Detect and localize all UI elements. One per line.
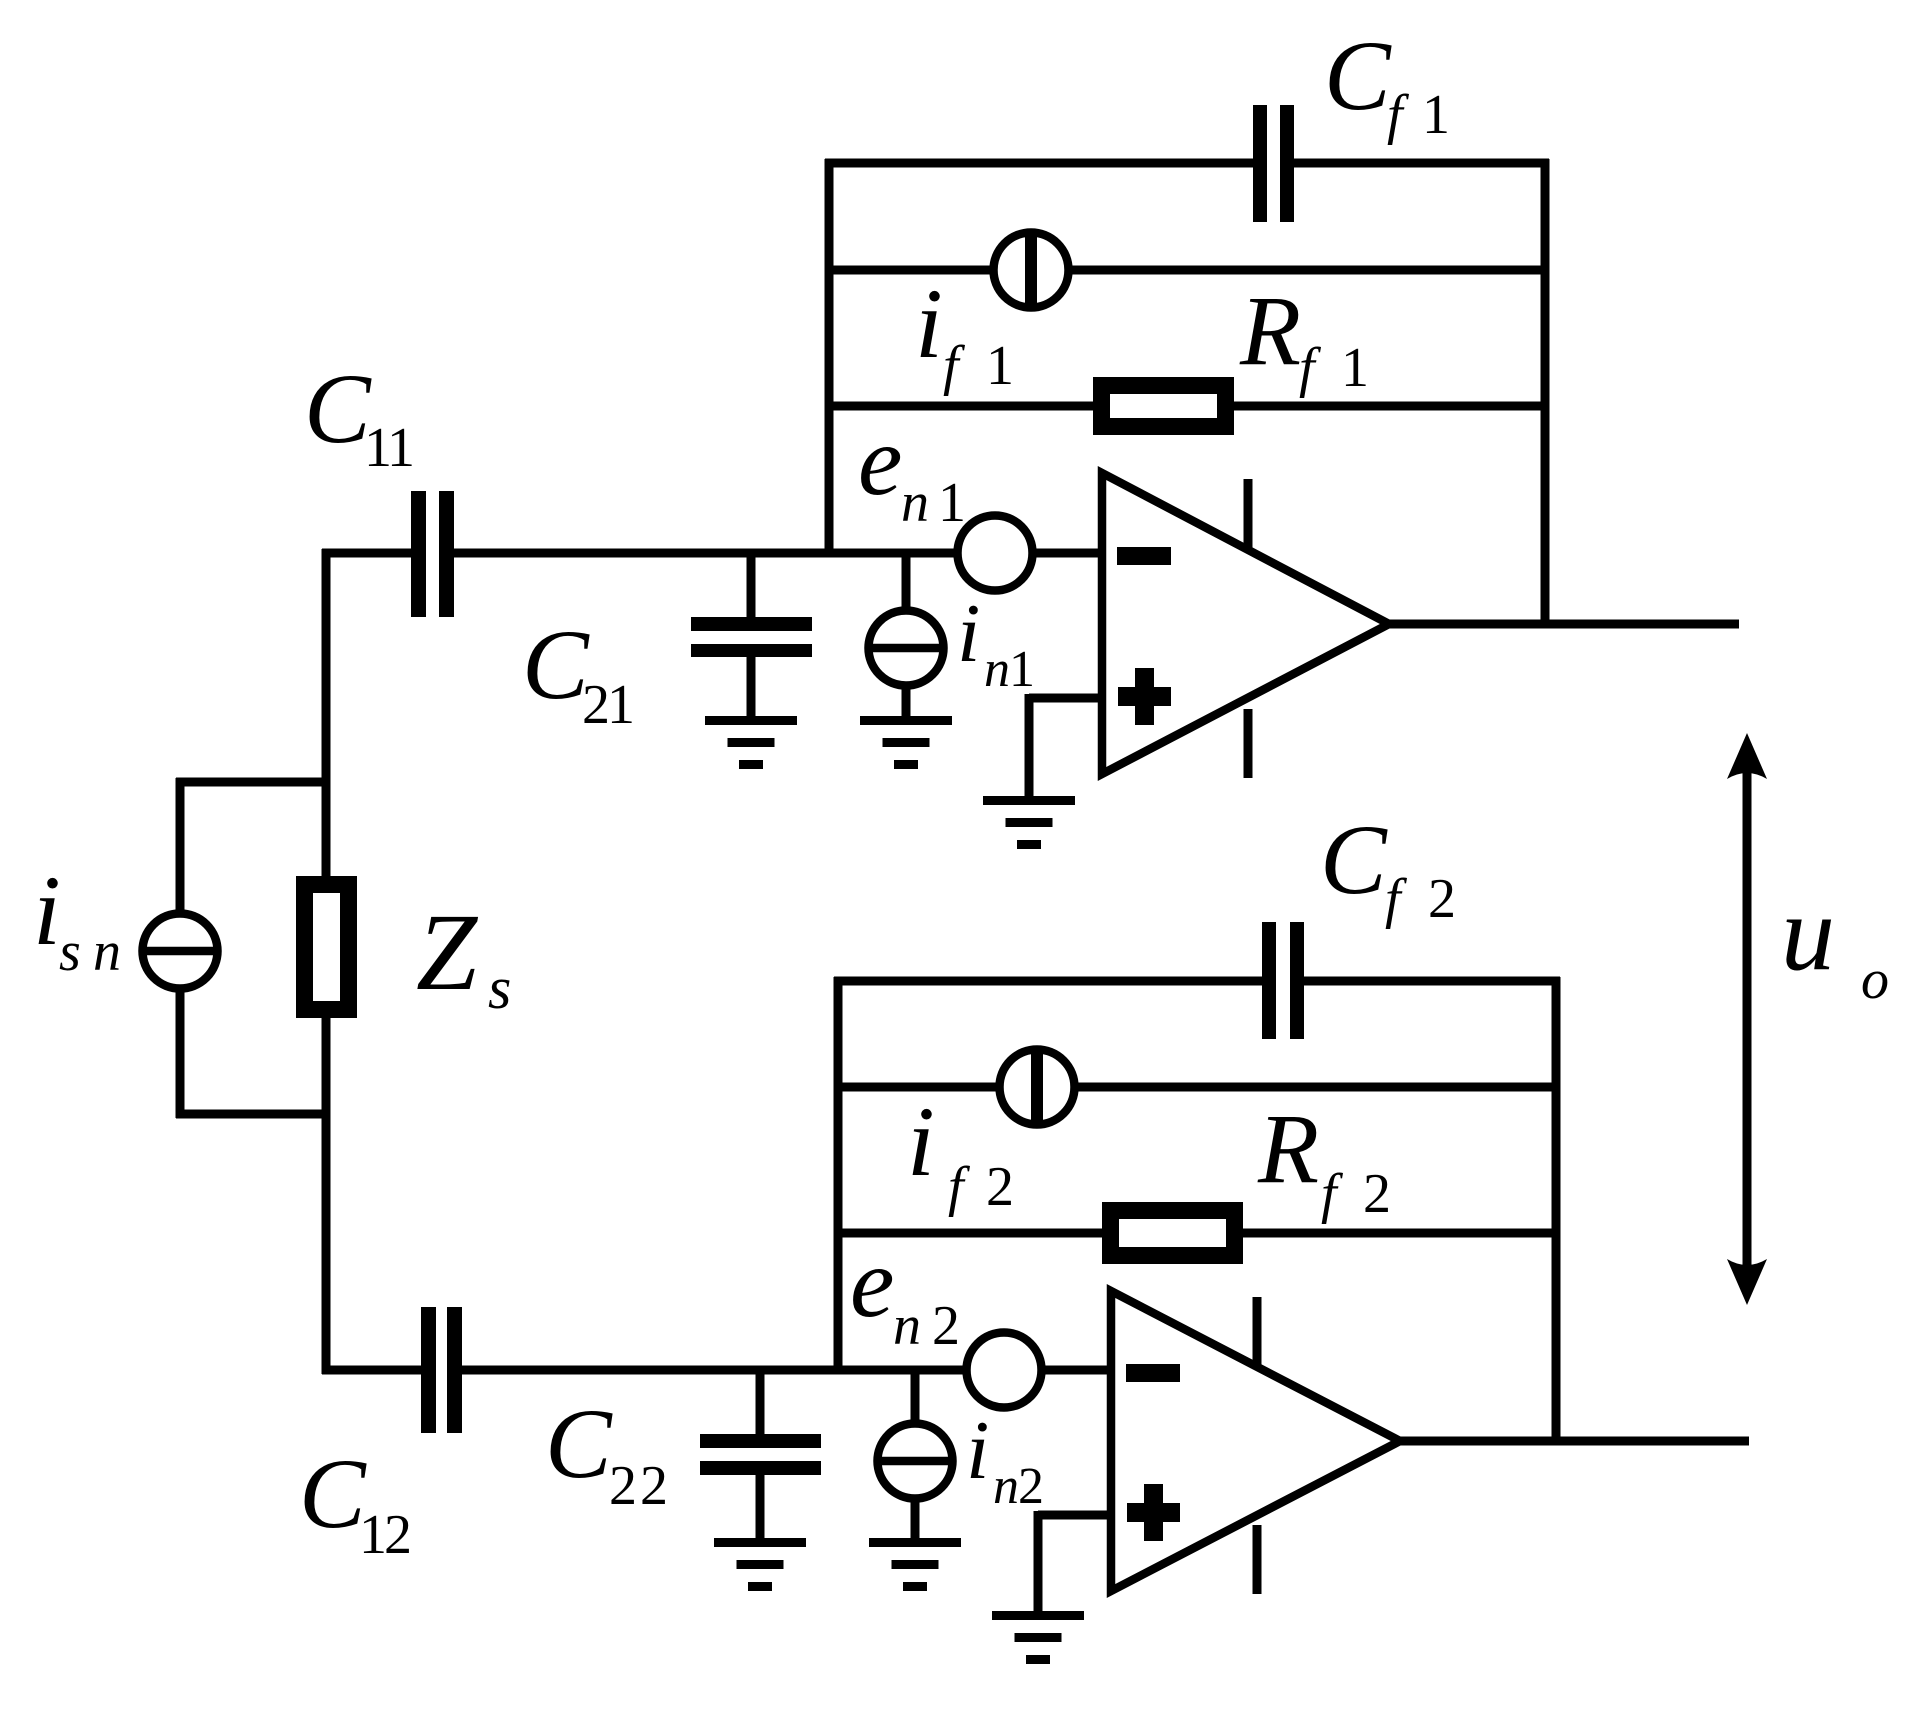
wire isn branch bottom xyxy=(176,1110,326,1119)
label C11 xyxy=(304,353,415,479)
svg-text:f: f xyxy=(1385,868,1408,930)
svg-text:C: C xyxy=(1320,804,1388,915)
wire output 1 xyxy=(1389,620,1739,629)
wire Rf1 row right xyxy=(1234,402,1549,411)
wire input line 1 (C11 to en1) xyxy=(454,549,955,558)
wire input line 2 (en2 to op-amp) xyxy=(1045,1366,1115,1375)
svg-text:i: i xyxy=(907,1086,935,1197)
svg-text:o: o xyxy=(1861,949,1889,1011)
svg-text:R: R xyxy=(1257,1093,1319,1204)
svg-text:1: 1 xyxy=(1009,641,1035,698)
current source if1 xyxy=(994,230,1069,310)
current source if2 xyxy=(1000,1047,1075,1127)
label in2 xyxy=(966,1404,1044,1515)
capacitor C11 xyxy=(411,491,454,617)
wire feedback box 1 top-right segment xyxy=(1294,159,1549,168)
ground (op-amp 1 + input) xyxy=(983,796,1075,849)
wire input line 2 (C12 to en2) xyxy=(462,1366,964,1375)
svg-text:2: 2 xyxy=(384,1504,412,1566)
svg-text:1: 1 xyxy=(387,417,415,479)
wire input line 1 (left of C11) xyxy=(322,549,411,558)
label Rf2 xyxy=(1257,1093,1391,1225)
wire feedback box 2 top-left segment xyxy=(834,977,1262,986)
wire non-inverting input 2 to ground xyxy=(1034,1511,1043,1615)
output voltage arrow uo xyxy=(1727,733,1767,1305)
label C12 xyxy=(299,1438,412,1566)
ground (C22) xyxy=(714,1538,806,1591)
svg-text:n: n xyxy=(993,1458,1019,1515)
current source isn xyxy=(142,914,218,989)
wire C22 to ground xyxy=(756,1475,765,1542)
wire isn branch left upper xyxy=(176,778,185,913)
wire feedback box 1 left edge xyxy=(825,159,834,557)
wire non-inverting input 1 xyxy=(1029,694,1106,703)
svg-text:2: 2 xyxy=(986,1156,1014,1218)
svg-text:i: i xyxy=(33,855,61,966)
ground (in2) xyxy=(869,1538,961,1591)
capacitor C12 xyxy=(421,1307,462,1433)
ground (C21) xyxy=(705,716,797,769)
label C21 xyxy=(522,609,635,736)
wire feedback box 2 right edge xyxy=(1552,977,1561,1445)
label isn xyxy=(33,855,121,983)
ground (in1) xyxy=(860,716,952,769)
svg-text:2: 2 xyxy=(640,1455,668,1517)
svg-text:f: f xyxy=(1299,337,1322,399)
svg-text:s: s xyxy=(59,921,81,983)
op-amp U2 xyxy=(1111,1291,1400,1594)
voltage noise source en2 xyxy=(967,1333,1042,1408)
capacitor Cf1 xyxy=(1253,105,1294,222)
svg-text:e: e xyxy=(858,405,902,516)
svg-text:R: R xyxy=(1239,275,1301,386)
label C22 xyxy=(545,1388,668,1517)
svg-text:n: n xyxy=(901,472,929,534)
svg-text:1: 1 xyxy=(359,1504,387,1566)
wire main input vertical (lower) xyxy=(322,1013,331,1374)
wire feedback box 1 right edge xyxy=(1541,159,1550,628)
wire output 2 xyxy=(1400,1437,1749,1446)
wire non-inverting input 1 to ground xyxy=(1025,694,1034,800)
impedance Zs xyxy=(305,885,349,1010)
svg-text:f: f xyxy=(948,1156,971,1218)
wire main input vertical (upper) xyxy=(322,549,331,881)
op-amp U1 xyxy=(1102,473,1389,778)
wire input line 2 (left of C12) xyxy=(322,1366,421,1375)
wire isn branch top xyxy=(176,778,326,787)
capacitor C22 xyxy=(700,1434,821,1475)
wire in2 to ground xyxy=(911,1498,920,1542)
wire Rf2 row right xyxy=(1243,1229,1560,1238)
wire Rf1 row left xyxy=(825,402,1093,411)
wire in1 stub xyxy=(902,553,911,611)
resistor Rf2 xyxy=(1111,1211,1235,1256)
svg-text:2: 2 xyxy=(1018,1458,1044,1515)
label en1 xyxy=(858,405,966,534)
svg-text:i: i xyxy=(957,587,980,680)
svg-text:1: 1 xyxy=(986,335,1014,397)
wire Rf2 row left xyxy=(834,1229,1102,1238)
wire non-inverting input 2 xyxy=(1038,1511,1115,1520)
voltage noise source en1 xyxy=(958,516,1033,591)
label in1 xyxy=(957,587,1035,698)
wire isn branch left lower xyxy=(176,989,185,1118)
svg-text:C: C xyxy=(299,1438,367,1549)
svg-text:1: 1 xyxy=(1341,337,1369,399)
svg-text:n: n xyxy=(984,641,1010,698)
label if1 xyxy=(915,268,1014,397)
svg-text:u: u xyxy=(1781,874,1835,993)
svg-text:e: e xyxy=(850,1227,894,1338)
svg-text:1: 1 xyxy=(938,472,966,534)
svg-text:C: C xyxy=(522,609,590,720)
label uo xyxy=(1781,874,1889,1011)
wire in2 stub xyxy=(911,1370,920,1424)
svg-text:1: 1 xyxy=(1422,84,1450,146)
capacitor C21 xyxy=(691,617,812,657)
wire C21 to ground xyxy=(747,657,756,720)
svg-text:f: f xyxy=(1321,1163,1344,1225)
wire if1 row left xyxy=(825,266,993,275)
svg-text:1: 1 xyxy=(607,674,635,736)
svg-text:f: f xyxy=(943,335,966,397)
svg-text:2: 2 xyxy=(609,1455,637,1517)
svg-text:2: 2 xyxy=(1428,868,1456,930)
wire if2 row left xyxy=(834,1083,999,1092)
current noise source in2 xyxy=(877,1424,953,1499)
svg-text:C: C xyxy=(304,353,372,464)
wire in1 to ground xyxy=(902,685,911,720)
label if2 xyxy=(907,1086,1014,1218)
svg-text:i: i xyxy=(915,268,943,379)
wire feedback box 1 top-left segment xyxy=(825,159,1253,168)
wire feedback box 2 left edge xyxy=(834,977,843,1374)
svg-text:2: 2 xyxy=(582,674,610,736)
wire if1 row right xyxy=(1069,266,1549,275)
label Zs xyxy=(416,891,511,1021)
wire C22 stub xyxy=(756,1370,765,1438)
svg-text:n: n xyxy=(93,921,121,983)
svg-text:C: C xyxy=(545,1388,613,1499)
wire C21 stub xyxy=(747,553,756,621)
svg-text:2: 2 xyxy=(1363,1163,1391,1225)
label Cf1 xyxy=(1324,20,1450,146)
svg-text:n: n xyxy=(893,1295,921,1357)
svg-text:i: i xyxy=(966,1404,989,1497)
label Cf2 xyxy=(1320,804,1456,930)
svg-text:C: C xyxy=(1324,20,1392,131)
label en2 xyxy=(850,1227,960,1357)
label Rf1 xyxy=(1239,275,1369,399)
current noise source in1 xyxy=(868,611,944,686)
resistor Rf1 xyxy=(1102,386,1226,427)
wire feedback box 2 top-right segment xyxy=(1304,977,1560,986)
wire input line 1 (en1 to op-amp) xyxy=(1036,549,1106,558)
capacitor Cf2 xyxy=(1262,922,1304,1039)
svg-text:f: f xyxy=(1387,84,1410,146)
wire if2 row right xyxy=(1075,1083,1560,1092)
svg-text:s: s xyxy=(488,955,511,1021)
ground (op-amp 2 + input) xyxy=(992,1611,1084,1664)
svg-text:Z: Z xyxy=(416,891,479,1013)
svg-text:2: 2 xyxy=(932,1295,960,1357)
